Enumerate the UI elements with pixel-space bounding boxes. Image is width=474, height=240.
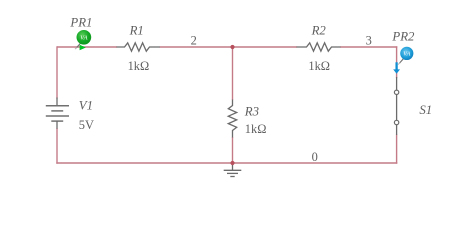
node label 3 [366, 33, 372, 47]
wire: top segment from R1 right lead through node 2 to R2 left lead [160, 46, 298, 48]
label V1 value 5V [79, 118, 94, 132]
wire: right vertical from corner down to S1 top lead [396, 46, 398, 78]
svg-text:R2: R2 [311, 24, 327, 38]
label V1 (designator) [79, 98, 93, 112]
label R3 value 1kΩ [245, 122, 267, 136]
node label 2 [191, 33, 197, 47]
svg-text:PR2: PR2 [391, 29, 415, 43]
resistor R3 (vertical) [228, 100, 236, 138]
svg-text:2: 2 [191, 33, 197, 47]
junction dot at ground on bottom rail [230, 161, 234, 165]
label R2 (designator) [311, 24, 327, 38]
label R1 value 1kΩ [128, 59, 150, 73]
label R2 value 1kΩ [308, 59, 330, 73]
resistor R2 [297, 43, 341, 51]
label R3 (designator) [244, 105, 259, 119]
label PR2 (designator) [391, 29, 415, 43]
label PR1 (designator) [69, 15, 92, 29]
probe PR1 (green VA probe with current arrow) [75, 30, 91, 50]
label R1 (designator) [129, 24, 144, 38]
svg-text:1kΩ: 1kΩ [128, 59, 150, 73]
label S1 (designator) [419, 103, 432, 117]
wire: middle branch from node 2 junction down to R3 top lead [232, 47, 234, 100]
wire: right vertical from S1 bottom lead to bottom rail [396, 135, 398, 164]
junction dot at node 2 branch (top) [230, 45, 234, 49]
wire: middle branch from R3 bottom lead to ground junction [232, 137, 234, 163]
svg-text:S1: S1 [419, 103, 432, 117]
wire: bottom rail (node 0) [56, 162, 397, 164]
wire: top segment from V1 corner to R1 left lead [57, 46, 117, 48]
svg-text:PR1: PR1 [69, 15, 92, 29]
svg-text:1kΩ: 1kΩ [245, 122, 267, 136]
wire: left vertical from V1 negative lead to bottom rail [56, 128, 58, 164]
battery V1 (5V source) [46, 98, 69, 129]
switch S1 (closed SPST) [394, 77, 398, 135]
svg-text:R3: R3 [244, 105, 259, 119]
resistor R1 [117, 43, 160, 51]
svg-text:VA: VA [403, 52, 410, 58]
svg-text:VA: VA [80, 35, 87, 42]
svg-text:0: 0 [312, 150, 318, 164]
ground symbol [224, 163, 242, 177]
svg-text:V1: V1 [79, 98, 93, 112]
wire: top segment from R2 right lead to PR2 corner [340, 46, 397, 48]
wire: left vertical from top corner down to V1 positive lead [56, 46, 58, 98]
svg-text:1kΩ: 1kΩ [308, 59, 330, 73]
svg-text:3: 3 [366, 33, 372, 47]
svg-text:R1: R1 [129, 24, 144, 38]
node label 0 [312, 150, 318, 164]
svg-text:5V: 5V [79, 118, 94, 132]
probe PR2 (blue VA probe with current arrow) [393, 47, 413, 74]
